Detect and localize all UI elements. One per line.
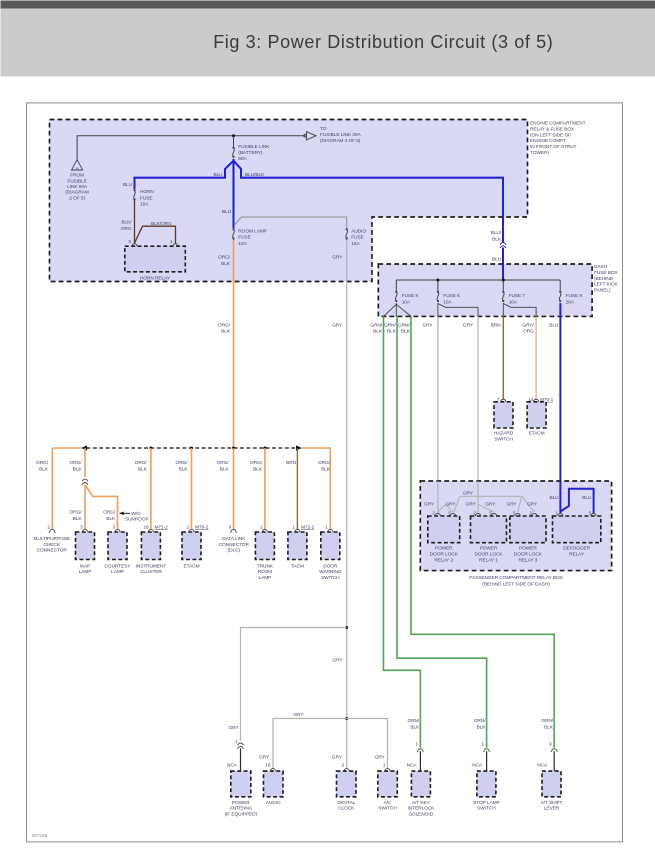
svg-text:FUSE: FUSE (140, 195, 152, 201)
label GRY power antenna drop (228, 725, 239, 731)
svg-text:DIGITAL: DIGITAL (337, 800, 355, 806)
label audio fuse (351, 228, 366, 246)
svg-text:SUNROOF: SUNROOF (125, 517, 149, 523)
svg-text:(BEHIND LEFT SIDE OF DASH): (BEHIND LEFT SIDE OF DASH) (482, 581, 550, 587)
stop lamp switch (477, 771, 496, 797)
org/blk wire room lamp fuse to splice bus (233, 240, 235, 449)
label instrument cluster (136, 563, 167, 575)
wire from fusible link 50A to fusible link battery (77, 136, 305, 160)
svg-text:GRY: GRY (445, 502, 456, 508)
svg-text:GRY: GRY (332, 754, 343, 760)
svg-text:ENGINE COMPT,: ENGINE COMPT, (530, 138, 567, 144)
trunk room lamp pin 2 (260, 524, 263, 529)
label a/t key interlock solenoid (408, 800, 436, 818)
fuse 9 20A (559, 291, 561, 302)
label BLU center vertical (222, 209, 232, 215)
header dark strip (1, 1, 655, 9)
label a/t shift lever (541, 800, 563, 812)
svg-text:SWITCH: SWITCH (321, 575, 340, 581)
label passenger compartment relay box (469, 575, 563, 587)
label tacm (291, 563, 304, 569)
svg-text:NCA: NCA (407, 762, 418, 768)
etacm pin 1 (187, 524, 190, 529)
svg-text:DOOR LOCK: DOOR LOCK (430, 552, 459, 558)
svg-text:(DIAGRAM: (DIAGRAM (65, 190, 88, 196)
label BLU above horn fuse (123, 182, 133, 188)
svg-text:GRY: GRY (375, 754, 386, 760)
svg-text:BLU: BLU (549, 495, 559, 501)
svg-text:FUSIBLE: FUSIBLE (67, 178, 86, 184)
svg-text:(DIAGRAM 4 OF 5): (DIAGRAM 4 OF 5) (320, 138, 361, 144)
svg-text:(ON LEFT SIDE OF: (ON LEFT SIDE OF (530, 132, 571, 138)
horn fuse 10A (133, 189, 135, 200)
svg-text:(IF EQUIPPED): (IF EQUIPPED) (225, 812, 258, 818)
svg-text:SOLENOID: SOLENOID (409, 812, 434, 818)
junction node audio branch (345, 717, 348, 720)
svg-text:CONNECTOR: CONNECTOR (37, 548, 68, 554)
svg-text:POWER: POWER (435, 546, 453, 552)
svg-text:10A: 10A (509, 299, 518, 305)
horn relay pin 5 (129, 239, 132, 244)
label trunk room lamp (257, 563, 274, 581)
svg-text:DATA LINK: DATA LINK (222, 536, 246, 542)
a/t key interlock solenoid (411, 771, 430, 797)
svg-text:NCA: NCA (227, 762, 238, 768)
connector on blu wire (500, 242, 506, 248)
svg-text:HORN RELAY: HORN RELAY (140, 275, 171, 281)
dash fuse box (378, 264, 592, 316)
svg-text:GRY/: GRY/ (522, 322, 534, 328)
svg-text:BLK: BLK (39, 467, 49, 473)
etacm (182, 532, 201, 560)
blk/org wire horn fuse to horn relay pin 5 (134, 200, 136, 244)
grn/blk wire fuse 8 to stop lamp switch (397, 316, 487, 747)
svg-text:GRY: GRY (293, 712, 304, 718)
svg-text:BLK: BLK (73, 516, 83, 522)
svg-text:ORG/: ORG/ (70, 510, 83, 516)
svg-text:IN FRONT OF STRUT: IN FRONT OF STRUT (530, 144, 577, 150)
org/blk drop to etacm (191, 448, 193, 529)
a/t shift lever pin 9 (549, 741, 552, 746)
svg-text:DASH: DASH (594, 264, 608, 270)
svg-text:BLK: BLK (138, 467, 148, 473)
power antenna (231, 771, 251, 797)
svg-text:GRN/: GRN/ (541, 718, 553, 724)
map lamp pin 3 (80, 524, 83, 529)
svg-text:ORG/: ORG/ (218, 255, 231, 261)
gry bus wire in relay box (460, 495, 522, 497)
svg-text:POWER: POWER (232, 800, 250, 806)
svg-text:COURTESY: COURTESY (105, 563, 132, 569)
svg-text:ORG: ORG (121, 226, 132, 232)
svg-text:FUSE: FUSE (351, 235, 363, 241)
label BLK/ORG vertical (121, 219, 132, 231)
etacm (upper) (527, 402, 546, 428)
blu wire fuse 9 to defogger relay (559, 303, 561, 481)
svg-text:POWER: POWER (480, 546, 498, 552)
fusible link (battery) 50A (232, 147, 234, 158)
passenger compartment relay box (420, 481, 611, 571)
svg-text:DOOR LOCK: DOOR LOCK (474, 552, 503, 558)
svg-text:ANTENNA: ANTENNA (230, 806, 253, 812)
door warning switch pin 1 (325, 524, 328, 529)
labels below dash fuse box (370, 322, 383, 334)
a/t key interlock solenoid pin 1 (415, 741, 418, 746)
svg-text:10A: 10A (443, 299, 452, 305)
power door lock relay 3 (510, 516, 546, 543)
svg-text:ORG/: ORG/ (70, 460, 83, 466)
svg-text:CLUSTER: CLUSTER (140, 569, 162, 575)
svg-text:POWER: POWER (519, 546, 537, 552)
svg-text:TRUNK: TRUNK (257, 563, 274, 569)
svg-text:ORG/: ORG/ (36, 460, 49, 466)
orange feed wire to multipurpose check connector (52, 447, 81, 449)
svg-text:FUSE 6: FUSE 6 (443, 293, 460, 299)
svg-text:16: 16 (265, 762, 270, 767)
svg-text:(DLC): (DLC) (228, 548, 241, 554)
gry branch to power antenna (241, 628, 347, 741)
svg-text:BLK: BLK (492, 237, 502, 243)
svg-text:BLU: BLU (123, 182, 133, 188)
svg-text:BLK: BLK (387, 329, 397, 335)
label GRN/BLK at a/t shift lever (541, 718, 554, 730)
gry wire relay 1 pin 2 inside box (477, 481, 479, 513)
svg-text:BLK/: BLK/ (121, 219, 132, 225)
gry wire audio fuse net lower section (346, 628, 348, 769)
svg-text:BRN: BRN (286, 460, 297, 466)
svg-text:GRY: GRY (485, 502, 496, 508)
diagram number 207225 (32, 833, 48, 839)
svg-text:FUSE BOX: FUSE BOX (594, 270, 618, 276)
label defogger relay (563, 546, 590, 558)
gry branch to a/c switch (347, 719, 388, 769)
label door warning switch (319, 563, 342, 581)
svg-text:AUDIO: AUDIO (266, 800, 281, 806)
svg-text:SWITCH: SWITCH (494, 437, 513, 443)
stop lamp switch pin 1 (482, 741, 485, 746)
svg-text:ORG/: ORG/ (103, 510, 116, 516)
svg-text:10A: 10A (140, 202, 149, 208)
svg-text:BLU: BLU (582, 495, 592, 501)
fuse 6 output wires (437, 303, 439, 316)
svg-text:BLK: BLK (221, 329, 231, 335)
engine compartment relay & fuse box (50, 120, 528, 282)
label GRN/BLK at a/t key interlock solenoid (408, 718, 421, 730)
blue wire split below fusible link battery (232, 159, 234, 228)
svg-text:BLK: BLK (220, 467, 230, 473)
label GRY mid (332, 322, 343, 328)
org/blk drop to trunk room lamp (264, 448, 266, 529)
instrument cluster (141, 532, 160, 560)
svg-text:GRY: GRY (228, 725, 239, 731)
label NCA stop lamp switch (472, 762, 483, 768)
svg-text:M70-2: M70-2 (195, 524, 209, 530)
trunk room lamp (255, 532, 274, 560)
svg-text:PASSENGER COMPARTMENT RELAY BO: PASSENGER COMPARTMENT RELAY BOX (469, 575, 563, 581)
svg-text:AUDIO: AUDIO (351, 228, 366, 234)
brn wire fuse 7 to hazard switch (502, 316, 504, 398)
label GRY lower (332, 658, 343, 664)
etacm pin 14 and connector M70-1 (529, 397, 534, 402)
label courtesy lamp (105, 563, 132, 575)
svg-text:SWITCH: SWITCH (378, 806, 397, 812)
courtesy lamp (108, 532, 127, 560)
label etacm upper (529, 431, 545, 437)
svg-text:BLU: BLU (222, 209, 232, 215)
label hazard switch (494, 431, 514, 443)
label NCA a/t shift lever (537, 762, 548, 768)
w/o sunroof annotation arrow (120, 512, 131, 516)
tacm pin 1 (293, 524, 296, 529)
svg-text:10A: 10A (402, 299, 411, 305)
svg-text:BLU/: BLU/ (491, 230, 502, 236)
svg-text:PANEL): PANEL) (594, 288, 611, 294)
digital clock (337, 771, 357, 797)
labels org/blk second level (70, 510, 83, 522)
power door lock relay 1 (471, 516, 507, 543)
svg-text:BLU: BLU (492, 256, 502, 262)
arrow to fusible link 30A (304, 132, 316, 140)
grn/blk wire fuse 8 to a/t shift lever (411, 316, 554, 747)
svg-text:INTERLOCK: INTERLOCK (408, 806, 436, 812)
svg-text:BLK: BLK (373, 329, 383, 335)
blu branch wire defogger relay pin 5 (560, 489, 593, 513)
svg-text:ORG/: ORG/ (135, 460, 148, 466)
dash fuse box internal bus wire (396, 279, 560, 281)
blu/blk wire engine box to dash fuse box (502, 248, 504, 265)
svg-text:50A: 50A (238, 156, 247, 162)
fuse 8 output fan wires (384, 303, 397, 316)
power door lock relay 2 (428, 516, 460, 543)
svg-text:A/C: A/C (384, 800, 392, 806)
svg-text:TOWER): TOWER) (530, 150, 549, 156)
hazard switch pin 7 (497, 397, 500, 402)
label horn relay (140, 275, 171, 281)
svg-text:BLK: BLK (179, 467, 189, 473)
blu wire inside dash fuse box (502, 264, 504, 281)
svg-text:INSTRUMENT: INSTRUMENT (136, 563, 167, 569)
gry wire relay 2 pin 2 inside box (437, 481, 439, 513)
orange extension wire to door warning switch (302, 448, 331, 529)
svg-text:CLOCK: CLOCK (338, 806, 355, 812)
fuse 8 10A (395, 291, 397, 302)
grn/blk wire fuse 8 to a/t key interlock solenoid (384, 316, 421, 747)
svg-text:ORG/: ORG/ (250, 460, 263, 466)
svg-text:(BATTERY): (BATTERY) (238, 150, 263, 156)
svg-text:BLU: BLU (213, 172, 223, 178)
digital clock pin 2 (342, 762, 345, 767)
label stop lamp switch (473, 800, 500, 812)
door warning switch (321, 532, 340, 560)
svg-text:ORG/: ORG/ (176, 460, 189, 466)
svg-text:ETACM: ETACM (529, 431, 545, 437)
org/blk drop to map lamp / courtesy lamp with connector (84, 448, 86, 477)
labels BLU in relay box (549, 495, 559, 501)
svg-text:CHECK: CHECK (43, 542, 60, 548)
svg-text:RELAY: RELAY (569, 552, 585, 558)
svg-text:BLK: BLK (106, 516, 116, 522)
svg-text:DEFOGGER: DEFOGGER (563, 546, 590, 552)
label fusible link battery 50A (238, 144, 270, 162)
label BLU/BLK (491, 230, 502, 243)
svg-text:10A: 10A (238, 241, 247, 247)
audio (264, 771, 284, 797)
svg-text:2 OF 5): 2 OF 5) (69, 196, 85, 202)
svg-text:A: A (76, 165, 79, 170)
svg-text:LEVER: LEVER (544, 806, 560, 812)
svg-text:DOOR: DOOR (323, 563, 338, 569)
header title band (1, 9, 655, 77)
svg-text:BLK: BLK (321, 467, 331, 473)
svg-text:NCA: NCA (472, 762, 483, 768)
org/blk drop to instrument cluster (150, 448, 152, 529)
label audio (266, 800, 281, 806)
svg-text:15A: 15A (351, 241, 360, 247)
svg-text:BLU/BLK: BLU/BLK (245, 172, 265, 178)
svg-text:GRY: GRY (259, 754, 270, 760)
svg-text:NCA: NCA (537, 762, 548, 768)
label NCA power antenna (227, 762, 238, 768)
svg-text:RELAY 3: RELAY 3 (519, 558, 538, 564)
label horn fuse (140, 189, 154, 208)
data link connector pin 9 (229, 524, 232, 529)
svg-text:20A: 20A (566, 299, 575, 305)
svg-text:RELAY 2: RELAY 2 (434, 558, 453, 564)
svg-text:LAMP: LAMP (79, 569, 92, 575)
svg-text:GRY: GRY (332, 255, 343, 261)
label a/c switch (378, 800, 397, 812)
junction node fuse 7 feed (502, 279, 505, 282)
label NCA a/t key interlock solenoid (407, 762, 418, 768)
horn relay pin 1 (170, 239, 173, 244)
svg-text:BLK: BLK (477, 724, 487, 730)
label room lamp fuse (238, 228, 267, 246)
tacm (288, 532, 307, 560)
defogger relay (553, 516, 601, 543)
svg-text:GRN/: GRN/ (398, 322, 410, 328)
svg-text:MAP: MAP (80, 563, 90, 569)
label to fusible link 30A (320, 126, 361, 144)
svg-text:ETACM: ETACM (183, 563, 199, 569)
svg-text:LINK 50A: LINK 50A (67, 184, 88, 190)
label GRY audio branch (293, 712, 304, 718)
org/blk drop to data link connector (233, 448, 235, 529)
audio pin 16 (265, 762, 270, 767)
hazard switch (494, 402, 513, 428)
svg-text:GRN/: GRN/ (474, 718, 486, 724)
room lamp fuse 10A (232, 228, 234, 239)
svg-text:LEFT KICK: LEFT KICK (594, 282, 618, 288)
audio fuse 15A (346, 228, 348, 239)
svg-text:SWITCH: SWITCH (477, 806, 496, 812)
label multipurpose check connector (33, 536, 70, 554)
svg-text:FUSE 9: FUSE 9 (566, 293, 583, 299)
svg-text:GRY: GRY (463, 491, 474, 497)
label power door lock relay 1 (474, 546, 503, 564)
power antenna pin 1 with connector (235, 739, 238, 744)
gry/org wire fuse 7 to etacm (535, 316, 537, 398)
svg-text:ENGINE COMPARTMENT: ENGINE COMPARTMENT (530, 121, 586, 127)
label from fusible link 50A (65, 173, 88, 202)
svg-text:GRY: GRY (332, 658, 343, 664)
svg-text:Fig 3: Power Distribution Circ: Fig 3: Power Distribution Circuit (3 of … (213, 32, 553, 52)
svg-text:GRY: GRY (424, 502, 435, 508)
svg-text:BLK: BLK (410, 724, 420, 730)
fuse 6 10A (437, 291, 439, 302)
svg-text:M71-2: M71-2 (155, 524, 169, 530)
label BLU below connector (492, 256, 502, 262)
svg-text:GRY: GRY (527, 502, 538, 508)
svg-text:HAZARD: HAZARD (494, 431, 514, 437)
triangle from fusible link 50A (72, 160, 83, 171)
svg-text:TO: TO (320, 126, 327, 132)
svg-text:STOP LAMP: STOP LAMP (473, 800, 500, 806)
engine compartment box label (530, 121, 586, 157)
labels GRY in relay box (463, 491, 474, 497)
a/c switch (378, 771, 398, 797)
brn drop to tacm (296, 448, 298, 529)
relay pin numbers (432, 510, 435, 515)
svg-text:BLK: BLK (253, 467, 263, 473)
svg-text:CONNECTOR: CONNECTOR (219, 542, 250, 548)
label map lamp (79, 563, 92, 575)
label power door lock relay 3 (514, 546, 543, 564)
svg-text:(BEHIND: (BEHIND (594, 276, 614, 282)
svg-text:RELAY & FUSE BOX: RELAY & FUSE BOX (530, 126, 575, 132)
svg-text:FUSE: FUSE (238, 235, 250, 241)
svg-text:BLK: BLK (221, 261, 231, 267)
label etacm (183, 563, 199, 569)
gray branch wire to audio fuse (234, 217, 346, 228)
diagram frame (27, 103, 623, 842)
svg-text:BLK/ORG: BLK/ORG (151, 221, 172, 227)
svg-text:GRN/: GRN/ (370, 322, 382, 328)
svg-text:LAMP: LAMP (111, 569, 124, 575)
svg-text:TACM: TACM (291, 563, 304, 569)
multipurpose check connector pin 2 (47, 524, 50, 529)
svg-text:GRY: GRY (422, 322, 433, 328)
svg-text:MULTIPURPOSE: MULTIPURPOSE (33, 536, 70, 542)
svg-text:ROOM: ROOM (258, 569, 273, 575)
svg-text:ORG/: ORG/ (218, 322, 231, 328)
wire to fusible link battery (233, 136, 235, 147)
junction dots on splice bus (149, 447, 152, 450)
svg-text:HORN: HORN (140, 189, 154, 195)
gry wire fuse 6 to power door lock relay 2 (437, 316, 439, 481)
label ORG/BLK upper (218, 255, 231, 267)
svg-text:ORG/: ORG/ (318, 460, 331, 466)
svg-text:RELAY 1: RELAY 1 (479, 558, 498, 564)
title text (213, 32, 553, 52)
label BLU left branch (213, 172, 223, 178)
svg-text:WARNING: WARNING (319, 569, 342, 575)
map lamp (76, 532, 95, 560)
courtesy lamp pin 3 (113, 524, 116, 529)
gry wire audio fuse down (346, 240, 348, 628)
svg-text:BLU: BLU (549, 322, 559, 328)
svg-text:16: 16 (144, 524, 149, 529)
gry bridge wire relay 2 pins (438, 504, 453, 512)
label ORG/BLK mid (218, 322, 231, 334)
a/t shift lever (542, 771, 561, 797)
svg-text:BLK: BLK (401, 329, 411, 335)
svg-text:FUSE 8: FUSE 8 (402, 293, 419, 299)
svg-text:ORG: ORG (523, 329, 534, 335)
gry wire fuse 6 to power door lock relay 1 (477, 316, 479, 481)
svg-text:GRN/: GRN/ (408, 718, 420, 724)
svg-text:A/T KEY: A/T KEY (412, 800, 431, 806)
label digital clock (337, 800, 355, 812)
